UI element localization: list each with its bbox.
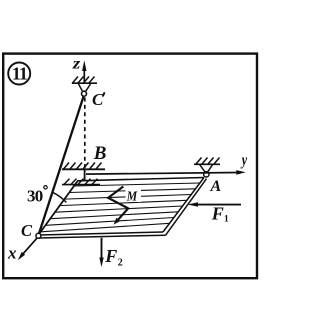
- svg-text:C: C: [92, 90, 104, 109]
- svg-text:z: z: [72, 54, 81, 72]
- svg-text:B: B: [93, 143, 107, 164]
- svg-text:M: M: [126, 188, 138, 204]
- svg-text:A: A: [210, 178, 222, 195]
- svg-text:2: 2: [118, 257, 123, 268]
- svg-text:x: x: [7, 244, 17, 263]
- svg-text:1: 1: [224, 214, 229, 224]
- svg-text:30: 30: [27, 187, 43, 206]
- svg-text:F: F: [104, 246, 117, 266]
- svg-text:11: 11: [12, 63, 28, 83]
- svg-text:y: y: [240, 153, 248, 170]
- svg-text:F: F: [211, 204, 224, 224]
- svg-text:C: C: [21, 221, 33, 240]
